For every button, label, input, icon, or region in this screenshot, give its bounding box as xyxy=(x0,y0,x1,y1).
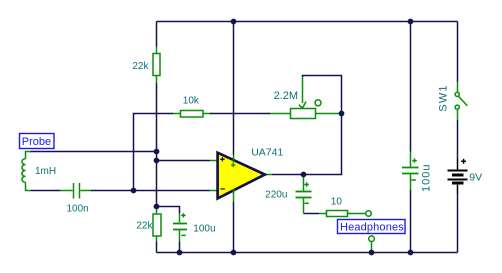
svg-text:Probe: Probe xyxy=(22,136,51,148)
svg-text:2.2M: 2.2M xyxy=(274,90,298,102)
svg-text:UA741: UA741 xyxy=(251,147,283,159)
svg-text:22k: 22k xyxy=(136,221,153,232)
svg-text:22k: 22k xyxy=(132,61,149,72)
svg-text:9V: 9V xyxy=(469,171,482,183)
svg-text:Headphones: Headphones xyxy=(340,222,404,234)
svg-text:10k: 10k xyxy=(183,95,200,106)
svg-text:SW1: SW1 xyxy=(438,84,450,111)
svg-text:220u: 220u xyxy=(265,189,287,200)
svg-text:100u: 100u xyxy=(420,164,432,192)
svg-text:10: 10 xyxy=(331,197,343,208)
svg-text:100n: 100n xyxy=(67,204,89,215)
svg-text:100u: 100u xyxy=(193,224,215,235)
svg-text:1mH: 1mH xyxy=(35,166,56,177)
